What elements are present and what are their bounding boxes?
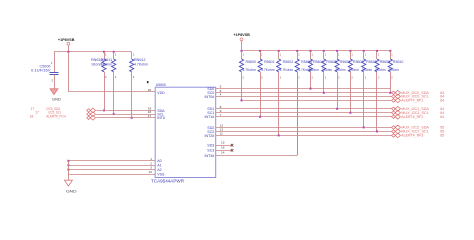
svg-text:TCA9544APWR: TCA9544APWR [151,179,185,185]
svg-text:2Kohm: 2Kohm [335,68,346,72]
svg-text:+1P8VSB: +1P8VSB [58,38,75,42]
svg-text:1Kohm: 1Kohm [101,62,113,66]
svg-text:4: 4 [220,93,222,97]
svg-text:R5610: R5610 [393,60,404,64]
svg-text:4.7Kohm: 4.7Kohm [134,62,148,66]
svg-text:A2: A2 [157,168,161,172]
svg-text:64: 64 [440,115,444,119]
svg-text:R5600: R5600 [246,60,257,64]
svg-text:18: 18 [30,115,34,119]
svg-text:20: 20 [148,88,152,92]
svg-text:14: 14 [221,151,225,155]
svg-text:A1: A1 [157,164,161,168]
svg-text:INT0#: INT0# [205,95,215,99]
svg-text:U5600: U5600 [156,83,166,87]
svg-text:16: 16 [221,146,225,150]
svg-text:11: 11 [220,132,223,136]
svg-text:2Kohm: 2Kohm [375,68,386,72]
svg-text:7: 7 [220,113,222,117]
svg-text:SC3: SC3 [207,149,214,153]
svg-text:INT2#: INT2# [205,134,215,138]
svg-text:3: 3 [150,166,152,170]
svg-text:4.7Kohm: 4.7Kohm [280,68,294,72]
svg-text:INT1#: INT1# [205,115,215,119]
svg-text:10: 10 [149,170,153,174]
svg-text:1: 1 [150,157,152,161]
svg-text:VDD: VDD [157,91,165,95]
svg-text:2Kohm: 2Kohm [362,68,373,72]
svg-text:ALERT#_RF1: ALERT#_RF1 [401,98,423,102]
svg-text:+1P8VSB: +1P8VSB [233,33,250,37]
svg-text:17: 17 [31,107,35,111]
svg-text:R5602: R5602 [283,60,294,64]
svg-text:15: 15 [221,140,225,144]
svg-text:17: 17 [148,114,152,118]
svg-text:GND: GND [66,190,77,194]
svg-text:ALERT#_RF2: ALERT#_RF2 [401,115,423,119]
svg-text:2Kohm: 2Kohm [388,68,399,72]
svg-text:4.7Kohm: 4.7Kohm [261,68,275,72]
svg-text:4.7Kohm: 4.7Kohm [243,68,257,72]
svg-text:64: 64 [440,98,444,102]
svg-text:VSS: VSS [157,172,165,176]
svg-text:ALERT#_RF3: ALERT#_RF3 [401,133,423,137]
svg-text:65: 65 [440,133,444,137]
svg-text:0.1UF/16V: 0.1UF/16V [31,68,51,72]
svg-text:R5601: R5601 [264,60,275,64]
svg-text:SD3: SD3 [207,144,214,148]
svg-text:INT3#: INT3# [205,154,215,158]
svg-text:A0: A0 [157,159,161,163]
svg-text:2Kohm: 2Kohm [322,68,333,72]
svg-text:2: 2 [150,161,152,165]
svg-text:2Kohm: 2Kohm [348,68,359,72]
svg-text:17: 17 [35,111,39,115]
svg-text:ALERT#_PCH: ALERT#_PCH [46,115,66,119]
svg-text:2Kohm: 2Kohm [309,68,320,72]
svg-text:GND: GND [52,97,61,101]
svg-text:INT#: INT# [157,116,165,120]
